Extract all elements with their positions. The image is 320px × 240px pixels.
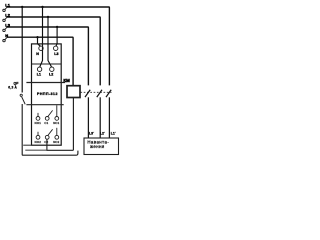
- terminal L2 of relay: [50, 67, 54, 71]
- svg-text:N: N: [5, 33, 8, 38]
- wire internal separator row1-row2: [32, 63, 62, 65]
- contact NO2: [36, 132, 40, 140]
- terminal N of relay: [39, 46, 43, 50]
- terminal N input: [3, 39, 5, 41]
- contactor contact KM L2: [97, 90, 102, 138]
- breaker QF: [20, 94, 78, 155]
- svg-text:L2: L2: [5, 13, 10, 18]
- contactor contact KM L3: [85, 90, 90, 138]
- wire C2 stem down: [46, 139, 48, 150]
- svg-text:РНПП-312: РНПП-312: [37, 92, 58, 96]
- svg-text:NC2: NC2: [53, 140, 59, 144]
- svg-text:NO2: NO2: [35, 140, 42, 144]
- wire L3 drop to relay: [56, 27, 57, 46]
- node junction L3-drop: [56, 26, 58, 28]
- svg-text:NO1: NO1: [35, 121, 42, 125]
- wire internal separator above label: [26, 82, 65, 84]
- wire N drop to relay: [38, 37, 41, 46]
- wire L2 terminal riser: [5, 17, 7, 19]
- wire QF tap from L1: [21, 7, 23, 93]
- wire L2 bus: [7, 17, 100, 85]
- terminal L1 of relay: [37, 67, 41, 71]
- wire C2 to KM coil vertical: [46, 98, 73, 151]
- svg-text:L3´: L3´: [89, 132, 94, 136]
- wire relay box bottom ledge: [23, 144, 31, 146]
- svg-text:L1: L1: [5, 3, 10, 8]
- svg-text:NC1: NC1: [53, 121, 59, 125]
- node junction L2-drop: [47, 16, 49, 18]
- load box Навантаження: [84, 138, 119, 155]
- svg-text:L3: L3: [5, 23, 10, 28]
- wire N terminal riser: [5, 37, 7, 39]
- wire L3 terminal riser: [5, 27, 7, 29]
- wire L3 bus: [7, 27, 89, 85]
- svg-text:6,3 A: 6,3 A: [8, 86, 17, 90]
- terminal L2 input: [3, 19, 5, 21]
- svg-text:КМ: КМ: [63, 78, 70, 83]
- wire N bus: [7, 37, 73, 85]
- svg-text:L2: L2: [49, 73, 53, 77]
- svg-text:C1: C1: [44, 121, 48, 125]
- node junction L1-drop: [41, 6, 43, 8]
- contact NC2: [55, 128, 59, 139]
- wire L1 bus: [7, 7, 110, 85]
- wire L2 drop to relay: [48, 17, 52, 67]
- contact C1 with arm: [45, 110, 52, 120]
- wire L1 drop to relay: [40, 7, 43, 67]
- relay U1 RNPP-312 box: [32, 44, 62, 145]
- wire QF lower run to bottom: [22, 104, 78, 155]
- contactor contact KM L1: [106, 90, 111, 138]
- node junction L1-QF: [21, 6, 23, 8]
- terminal L3 input: [3, 29, 5, 31]
- wire ghost bottom bus: [25, 149, 46, 151]
- terminal L1 input: [3, 9, 5, 11]
- svg-text:L3: L3: [54, 52, 58, 56]
- contact NO1: [36, 113, 40, 120]
- svg-text:L1´: L1´: [111, 132, 116, 136]
- svg-text:N: N: [36, 52, 39, 56]
- contactor coil KM: [67, 86, 80, 98]
- node junction N-drop: [36, 36, 38, 38]
- svg-text:ження: ження: [90, 144, 105, 149]
- svg-text:L1: L1: [37, 73, 41, 77]
- terminal L3 of relay: [54, 46, 58, 50]
- dashed mechanical link of KM: [80, 91, 111, 93]
- wire L1 terminal riser: [5, 7, 7, 9]
- svg-text:L2´: L2´: [100, 132, 105, 136]
- contact C2 with arm: [45, 129, 52, 139]
- wire internal separator above contacts: [26, 104, 63, 106]
- contact NC1: [55, 105, 59, 120]
